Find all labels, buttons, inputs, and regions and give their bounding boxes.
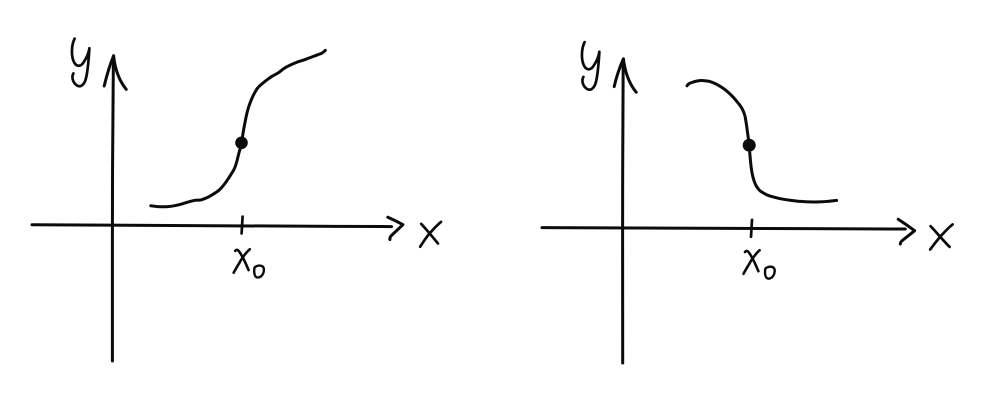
curve (right, decreasing S): [687, 81, 837, 203]
y-axis (right): [621, 60, 625, 363]
left graph: [32, 39, 441, 361]
label x0 (left): subscript o: [254, 266, 264, 278]
label x0 (left): X: [235, 250, 248, 270]
y-axis arrowhead (left): [104, 56, 113, 86]
label y (right): [582, 42, 599, 90]
y-axis arrowhead (right): [614, 59, 623, 87]
point dot (right): [743, 139, 756, 152]
label x0 (right): X: [745, 251, 758, 271]
x-axis arrowhead (left): [388, 217, 403, 239]
label x0 (right): subscript o: [765, 267, 775, 279]
point dot (left): [235, 137, 248, 150]
right graph: [542, 42, 953, 363]
label y (left): [72, 39, 89, 87]
curve (left, increasing S): [151, 50, 325, 206]
tick x0 (right): [751, 220, 752, 237]
x-axis arrowhead (right): [898, 219, 914, 244]
x-axis (right): [542, 228, 905, 229]
tick x0 (left): [242, 217, 243, 234]
label x (left axis): [421, 224, 438, 244]
label x (right axis): [931, 226, 950, 247]
y-axis (left): [112, 57, 113, 361]
x-axis (left): [32, 225, 392, 227]
